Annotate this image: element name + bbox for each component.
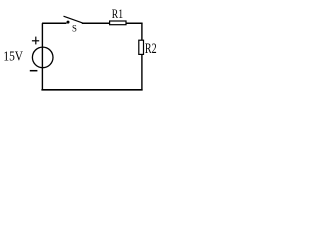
wire: left side (passes through voltage source V1) bbox=[41, 23, 43, 90]
resistor R1 box bbox=[110, 21, 126, 25]
wire: right side, top corner to resistor R2 bbox=[141, 23, 143, 40]
wire: top, left segment (node A to switch S) bbox=[42, 22, 66, 24]
polarity mark + of voltage source V1 bbox=[32, 40, 39, 42]
resistor R2 box bbox=[139, 40, 144, 54]
svg-text:15V: 15V bbox=[3, 48, 23, 63]
background bbox=[0, 0, 170, 101]
svg-text:S: S bbox=[72, 25, 77, 35]
wire: top, resistor R1 to top-right corner bbox=[126, 22, 143, 24]
svg-text:R2: R2 bbox=[145, 41, 157, 57]
switch S blade (open) bbox=[64, 16, 83, 23]
wire: top, switch S to resistor R1 bbox=[82, 22, 110, 24]
polarity mark - of voltage source V1 bbox=[30, 70, 38, 72]
switch S terminal dot (junction) bbox=[67, 21, 70, 24]
svg-text:R1: R1 bbox=[112, 6, 123, 21]
wire: right side, resistor R2 to bottom corner bbox=[141, 54, 143, 90]
wire: bottom return bbox=[41, 89, 142, 91]
voltage source V1 (15V) circle bbox=[32, 47, 53, 68]
